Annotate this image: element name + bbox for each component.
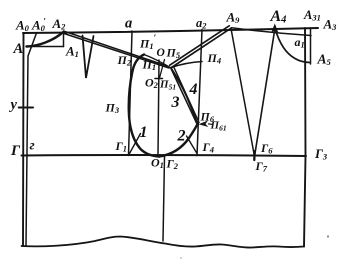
svg-text:4: 4 [189, 81, 198, 98]
svg-text:O: O [157, 47, 165, 59]
svg-text:г: г [30, 139, 35, 154]
svg-text:2: 2 [177, 128, 186, 145]
svg-text:Г: Г [10, 143, 21, 159]
svg-text:a: a [125, 16, 132, 32]
svg-text:A0′: A0′ [31, 17, 46, 34]
svg-text:1: 1 [140, 124, 148, 141]
svg-text:3: 3 [171, 94, 180, 111]
svg-text:y: y [9, 97, 18, 113]
svg-text:A: A [13, 41, 24, 57]
